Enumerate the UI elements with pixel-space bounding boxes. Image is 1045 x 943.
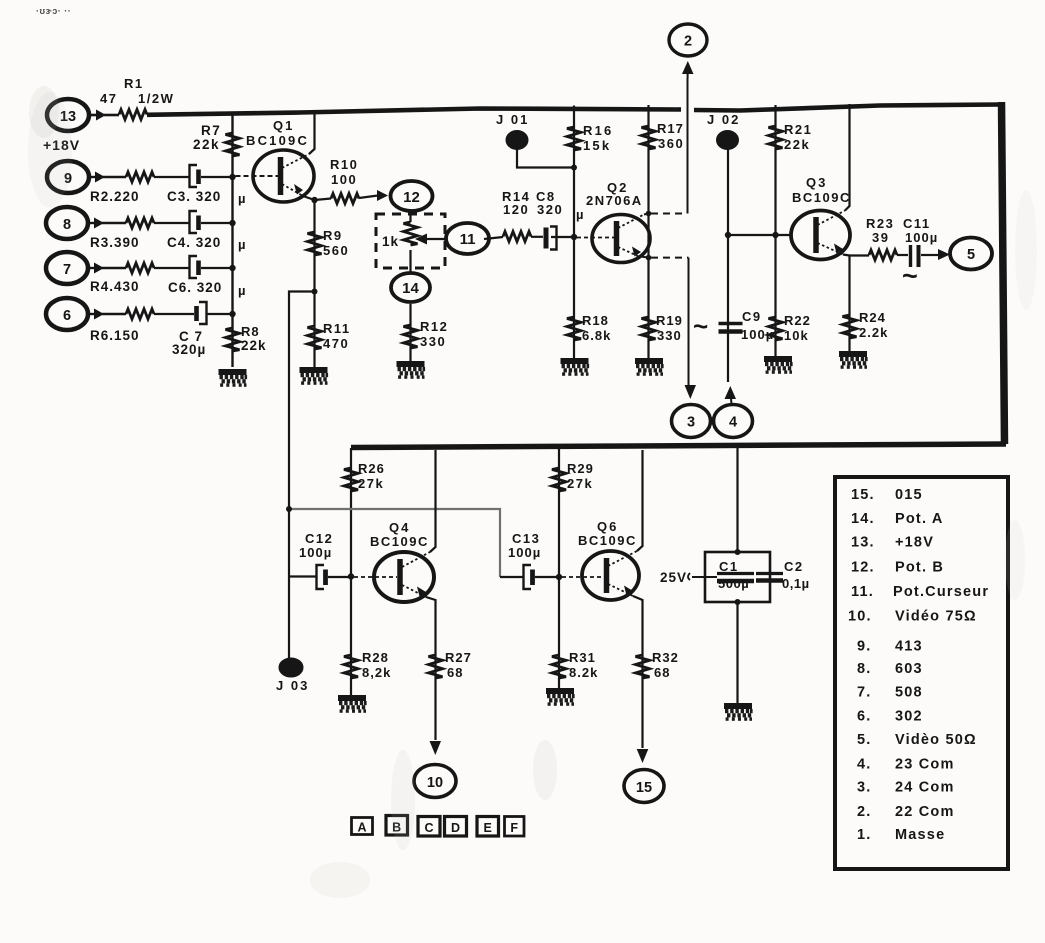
svg-text:J 02: J 02 xyxy=(707,112,740,127)
svg-text:C3. 320: C3. 320 xyxy=(167,189,221,204)
svg-text:508: 508 xyxy=(895,685,923,701)
svg-text:302: 302 xyxy=(895,709,923,725)
svg-text:R3.390: R3.390 xyxy=(90,235,140,250)
wire 7 arrow xyxy=(88,263,126,274)
resistor R16 xyxy=(567,127,581,150)
ground (R22) xyxy=(764,359,793,374)
wire branch to lower stage xyxy=(289,292,315,662)
wire R29/R31 bus xyxy=(558,448,560,688)
wire R21/R22 bus xyxy=(774,105,776,358)
resistor R17 xyxy=(642,126,656,149)
arrow into node 15 xyxy=(637,749,649,763)
svg-text:C2: C2 xyxy=(784,559,804,574)
svg-text:47: 47 xyxy=(100,91,117,106)
svg-text:4: 4 xyxy=(729,415,737,431)
wire arrow into node 5 xyxy=(938,249,950,260)
node 10 xyxy=(414,765,456,798)
svg-text:12.: 12. xyxy=(851,560,875,576)
wire C1 box to ground xyxy=(736,602,738,703)
svg-text:2.: 2. xyxy=(857,804,872,820)
svg-text:1.: 1. xyxy=(857,827,872,843)
resistor R7 xyxy=(226,133,240,156)
resistor R14 xyxy=(503,232,531,242)
svg-text:330: 330 xyxy=(657,328,682,343)
wire J02 bus down to node 4 with up arrow xyxy=(725,148,737,404)
wire 14 to R12 xyxy=(409,304,411,362)
svg-text:J 03: J 03 xyxy=(276,678,309,693)
svg-text:D: D xyxy=(451,821,460,835)
wire 6 arrow xyxy=(88,309,126,320)
svg-text:Masse: Masse xyxy=(895,827,945,843)
svg-text:R22: R22 xyxy=(784,313,811,328)
resistor R28 xyxy=(344,655,358,678)
svg-text:8,2k: 8,2k xyxy=(362,665,391,680)
svg-text:4.: 4. xyxy=(857,757,872,773)
wire rail to C1 box xyxy=(736,446,738,552)
wire R10 to node 12 with arrow xyxy=(359,190,388,201)
svg-text:R11: R11 xyxy=(323,321,351,336)
svg-text:Pot. B: Pot. B xyxy=(895,560,944,576)
wire R16/R18 bus xyxy=(573,106,575,361)
svg-text:8: 8 xyxy=(63,217,71,233)
node 13 xyxy=(47,99,89,131)
node 11 xyxy=(446,223,489,254)
svg-text:C6. 320: C6. 320 xyxy=(168,280,222,295)
resistor R21 xyxy=(769,126,783,149)
svg-text:5: 5 xyxy=(967,247,975,263)
ground (input bus) xyxy=(219,372,248,387)
svg-text:R18: R18 xyxy=(582,313,609,328)
svg-text:Vidèo 50Ω: Vidèo 50Ω xyxy=(895,732,977,748)
svg-text:Vidéo 75Ω: Vidéo 75Ω xyxy=(895,609,977,625)
svg-text:27k: 27k xyxy=(358,476,384,491)
wire 8 arrow xyxy=(88,218,126,229)
connector letter box B xyxy=(386,816,408,836)
C1/C2 enclosure box xyxy=(705,552,770,602)
svg-text:·ʊɝɔ· ··: ·ʊɝɔ· ·· xyxy=(36,6,71,16)
connector letter box E xyxy=(477,817,499,837)
svg-text:~: ~ xyxy=(693,311,708,341)
wire R4 to C6 xyxy=(154,267,189,269)
pot wiper arrow from node 11 xyxy=(415,234,446,245)
capacitor C8 xyxy=(531,227,574,250)
jack J 03 xyxy=(276,659,309,693)
svg-text:R1: R1 xyxy=(124,76,144,91)
node 4 xyxy=(714,405,753,438)
svg-text:14.: 14. xyxy=(851,511,875,527)
wire R2 to C3 xyxy=(154,176,189,178)
svg-text:68: 68 xyxy=(447,665,463,680)
box right border xyxy=(1002,102,1005,444)
svg-text:R6.150: R6.150 xyxy=(90,328,140,343)
resistor R19 xyxy=(642,317,656,340)
svg-text:24 Com: 24 Com xyxy=(895,780,955,796)
svg-text:R10: R10 xyxy=(330,157,358,172)
node 3 xyxy=(672,405,711,438)
node 2 xyxy=(669,24,707,56)
wire node 11 to R14 xyxy=(484,237,503,239)
svg-text:7: 7 xyxy=(63,262,71,278)
capacitor C6 xyxy=(190,256,233,278)
svg-text:100µ: 100µ xyxy=(508,545,541,560)
svg-text:11.: 11. xyxy=(851,584,874,600)
svg-text:+18V: +18V xyxy=(895,535,934,551)
svg-text:Q1: Q1 xyxy=(273,118,294,133)
transistor Q6 BC109C xyxy=(562,551,639,600)
resistor R12 xyxy=(404,325,418,348)
svg-text:Q6: Q6 xyxy=(597,519,618,534)
svg-text:5.: 5. xyxy=(857,732,872,748)
svg-text:603: 603 xyxy=(895,661,923,677)
svg-text:330: 330 xyxy=(420,334,446,349)
capacitor C1 xyxy=(717,574,754,582)
resistor R6 xyxy=(126,309,154,319)
svg-text:C11: C11 xyxy=(903,216,931,231)
resistor R3 xyxy=(126,218,154,228)
ground (R28) xyxy=(338,698,367,713)
svg-text:22 Com: 22 Com xyxy=(895,804,955,820)
ground (R31) xyxy=(546,691,575,706)
svg-text:15.: 15. xyxy=(851,487,875,503)
svg-text:10: 10 xyxy=(427,775,443,791)
node 15 xyxy=(624,770,664,803)
resistor R23 xyxy=(869,250,897,260)
svg-text:22k: 22k xyxy=(241,338,267,353)
resistor R11 xyxy=(308,326,322,349)
svg-text:6.8k: 6.8k xyxy=(582,328,611,343)
resistor R4 xyxy=(126,263,154,273)
capacitor C12 xyxy=(289,565,351,589)
svg-text:2.2k: 2.2k xyxy=(859,325,888,340)
ground (R24) xyxy=(839,354,868,369)
resistor R24 xyxy=(843,315,857,338)
svg-text:500µ: 500µ xyxy=(718,576,749,591)
jack J 01 xyxy=(496,112,529,149)
node 7 xyxy=(46,252,88,284)
svg-text:11: 11 xyxy=(460,231,476,248)
wire input bus xyxy=(231,112,233,367)
transistor Q1 BC109C xyxy=(236,150,315,202)
svg-text:470: 470 xyxy=(323,336,349,351)
svg-text:10.: 10. xyxy=(848,609,872,625)
svg-text:C1: C1 xyxy=(719,559,739,574)
svg-text:6: 6 xyxy=(63,308,71,324)
svg-text:A: A xyxy=(357,821,366,835)
svg-text:BC109C: BC109C xyxy=(370,534,429,549)
resistor R18 xyxy=(567,317,581,340)
svg-text:23 Com: 23 Com xyxy=(895,757,955,773)
resistor R29 xyxy=(552,468,566,491)
svg-text:1k: 1k xyxy=(382,234,399,249)
svg-text:120: 120 xyxy=(503,202,529,217)
potentiometer 1k element xyxy=(404,211,418,272)
svg-text:C9: C9 xyxy=(742,309,762,324)
wire emitter to R23 xyxy=(850,254,870,256)
svg-text:14: 14 xyxy=(402,280,419,297)
node 5 xyxy=(950,238,992,270)
potentiometer 1k dashed box xyxy=(376,214,445,268)
svg-text:3: 3 xyxy=(687,415,695,431)
svg-text:2: 2 xyxy=(684,34,692,50)
capacitor C7 xyxy=(197,302,233,324)
svg-text:C: C xyxy=(424,821,433,835)
resistor R22 xyxy=(769,317,783,340)
node 6 xyxy=(46,298,88,330)
ground (C1) xyxy=(724,706,753,721)
wire Q3 collector to rail xyxy=(845,104,850,211)
svg-text:C4. 320: C4. 320 xyxy=(167,235,221,250)
svg-text:R31: R31 xyxy=(569,650,596,665)
svg-text:µ: µ xyxy=(576,207,584,222)
resistor R10 xyxy=(315,199,332,201)
svg-text:R7: R7 xyxy=(201,123,221,138)
arrow into node 10 xyxy=(430,741,442,755)
resistor R1 xyxy=(119,110,147,120)
connector letter box A xyxy=(352,818,373,835)
svg-text:Q4: Q4 xyxy=(389,520,410,535)
wire Q1 emitter to node xyxy=(303,196,315,200)
resistor R31 xyxy=(552,655,566,678)
svg-text:22k: 22k xyxy=(193,137,220,152)
node 12 xyxy=(391,181,433,211)
wire Q4 emitter down xyxy=(426,597,436,740)
svg-text:8.2k: 8.2k xyxy=(569,665,598,680)
wire Q4 collector to rail xyxy=(430,450,436,552)
wire Q2 emitter dashes to node3 line xyxy=(641,257,649,258)
svg-text:µ: µ xyxy=(238,283,246,298)
node 14 xyxy=(391,273,430,302)
transistor Q2 2N706A xyxy=(577,215,650,263)
svg-text:68: 68 xyxy=(654,665,670,680)
svg-text:13.: 13. xyxy=(851,535,875,551)
svg-text:320: 320 xyxy=(537,202,563,217)
legend text xyxy=(848,487,989,843)
svg-text:Pot.Curseur: Pot.Curseur xyxy=(893,584,989,600)
svg-text:R2.220: R2.220 xyxy=(90,189,140,204)
svg-text:µ: µ xyxy=(238,191,246,206)
svg-text:320µ: 320µ xyxy=(172,342,206,357)
wire R17/R19 bus xyxy=(647,105,649,360)
svg-text:8.: 8. xyxy=(857,661,872,677)
svg-text:R16: R16 xyxy=(583,123,613,138)
svg-text:R26: R26 xyxy=(358,461,385,476)
wire 9 arrow xyxy=(89,172,126,183)
svg-text:C13: C13 xyxy=(512,531,540,546)
resistor R9 xyxy=(308,232,322,255)
svg-text:BC109C: BC109C xyxy=(792,190,851,205)
svg-text:100µ: 100µ xyxy=(299,545,332,560)
wire 13 to R1 with arrow xyxy=(89,110,119,121)
svg-text:R9: R9 xyxy=(323,228,343,243)
connector letter box F xyxy=(505,817,525,837)
svg-text:R19: R19 xyxy=(656,313,683,328)
svg-text:9.: 9. xyxy=(857,639,872,655)
svg-text:15: 15 xyxy=(636,780,652,796)
svg-text:0,1µ: 0,1µ xyxy=(782,576,810,591)
svg-text:15k: 15k xyxy=(583,138,611,153)
svg-text:R28: R28 xyxy=(362,650,389,665)
wire Q3 base xyxy=(728,234,791,236)
svg-text:25V: 25V xyxy=(660,570,687,585)
svg-text:100: 100 xyxy=(331,172,357,187)
svg-text:R32: R32 xyxy=(652,650,679,665)
resistor R27 xyxy=(429,655,443,678)
svg-text:1/2W: 1/2W xyxy=(138,91,174,106)
capacitor C3 xyxy=(190,165,233,187)
wire Q6 collector to rail xyxy=(637,450,643,551)
svg-text:R17: R17 xyxy=(657,121,684,136)
svg-text:E: E xyxy=(484,821,492,835)
resistor R32 xyxy=(636,655,650,678)
wire R6 to C7 xyxy=(154,313,194,315)
svg-text:J 01: J 01 xyxy=(496,112,529,127)
wire Q6 emitter down xyxy=(633,596,643,748)
svg-text:10k: 10k xyxy=(784,328,809,343)
capacitor C4 xyxy=(190,211,233,233)
wire emitter bus down xyxy=(313,200,315,367)
node 8 xyxy=(46,207,88,239)
svg-text:7.: 7. xyxy=(857,685,872,701)
svg-text:22k: 22k xyxy=(784,137,810,152)
svg-text:BC109C: BC109C xyxy=(246,133,309,148)
wire R26/R28 bus xyxy=(350,448,352,695)
svg-text:R24: R24 xyxy=(859,310,886,325)
svg-text:C12: C12 xyxy=(305,531,333,546)
svg-text:015: 015 xyxy=(895,487,923,503)
svg-text:~: ~ xyxy=(902,261,918,291)
svg-text:413: 413 xyxy=(895,639,923,655)
node 9 xyxy=(47,161,89,193)
wire R3 to C4 xyxy=(154,222,189,224)
ground (R12) xyxy=(397,364,426,379)
legend box xyxy=(835,477,1008,869)
connector letter box D xyxy=(445,817,467,837)
svg-text:3.: 3. xyxy=(857,780,872,796)
svg-text:100µ: 100µ xyxy=(905,230,938,245)
wire to node 3 with down arrow xyxy=(685,258,697,399)
svg-text:360: 360 xyxy=(658,136,684,151)
capacitor C11 xyxy=(897,245,929,267)
ground (R11) xyxy=(300,370,329,385)
node dots on bus xyxy=(229,174,235,180)
svg-text:R8: R8 xyxy=(241,324,260,339)
svg-text:BC109C: BC109C xyxy=(578,533,637,548)
capacitor C9 xyxy=(719,324,743,332)
wire signal from R9/R11 to Q6 stage (gray) xyxy=(289,509,500,577)
resistor R26 xyxy=(344,468,358,491)
svg-text:6.: 6. xyxy=(857,709,872,725)
svg-text:F: F xyxy=(510,821,518,835)
wire +18V rail xyxy=(147,109,681,115)
wire Q1 collector to rail xyxy=(309,110,315,154)
svg-text:R23: R23 xyxy=(866,216,894,231)
svg-text:R12: R12 xyxy=(420,319,448,334)
svg-text:2N706A: 2N706A xyxy=(586,193,643,208)
ground (R18) xyxy=(561,361,590,376)
svg-text:12: 12 xyxy=(403,189,420,206)
svg-text:Pot. A: Pot. A xyxy=(895,511,944,527)
capacitor C13 xyxy=(500,565,559,589)
wire Q3 emitter junction down xyxy=(843,255,850,353)
transistor Q3 BC109C xyxy=(791,211,850,260)
resistor R8 xyxy=(226,328,240,351)
capacitor C2 xyxy=(756,574,783,581)
svg-text:µ: µ xyxy=(238,237,246,252)
svg-text:R27: R27 xyxy=(445,650,472,665)
box bottom border xyxy=(351,444,1006,448)
svg-text:560: 560 xyxy=(323,243,349,258)
svg-text:27k: 27k xyxy=(567,476,593,491)
transistor Q4 BC109C xyxy=(354,552,434,602)
connector letter box C xyxy=(418,817,440,837)
svg-text:R4.430: R4.430 xyxy=(90,279,140,294)
wire Q2 collector dashes to node2 line xyxy=(644,214,649,215)
svg-text:R21: R21 xyxy=(784,122,812,137)
wire J01 to R16 bus xyxy=(517,148,574,168)
svg-text:39: 39 xyxy=(872,230,889,245)
jack J 02 xyxy=(707,112,740,149)
svg-text:Q3: Q3 xyxy=(806,175,827,190)
ground (R19) xyxy=(635,361,664,376)
resistor R2 xyxy=(126,172,154,182)
wire to node 2 with up arrow xyxy=(682,61,694,214)
svg-text:R29: R29 xyxy=(567,461,594,476)
